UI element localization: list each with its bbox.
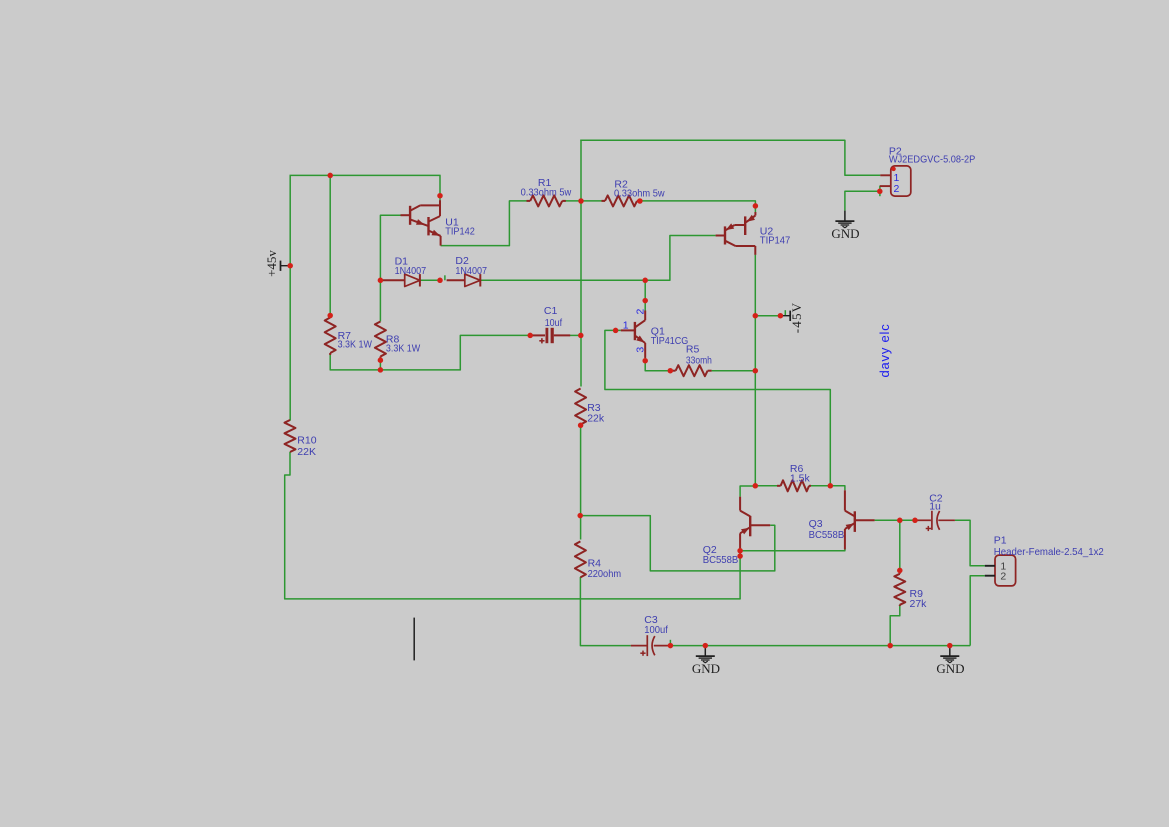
junction 18 <box>668 368 674 374</box>
darlington U1 <box>439 200 441 216</box>
svg-text:GND: GND <box>692 661 720 676</box>
junction 20 <box>578 423 584 429</box>
svg-text:R10: R10 <box>297 434 316 446</box>
resistor R1 <box>527 200 531 202</box>
svg-text:27k: 27k <box>910 598 928 610</box>
resistor R8 <box>375 322 386 357</box>
svg-text:10uf: 10uf <box>545 317 562 329</box>
diode D1 <box>381 279 405 281</box>
wire R5 right <box>712 370 756 372</box>
junction 2 <box>437 193 443 199</box>
wire Q2 emitter to Q3 emitter <box>740 549 845 551</box>
wire C1 left <box>530 334 531 336</box>
junction 3 <box>327 313 333 319</box>
capacitor C2 <box>915 519 931 521</box>
wire R6 left lead <box>755 485 777 487</box>
junction -45V tap <box>753 313 759 319</box>
resistor R3 <box>575 389 586 425</box>
junction 14 <box>642 278 648 284</box>
svg-text:C1: C1 <box>544 305 558 317</box>
junction 12 <box>753 203 759 209</box>
junction 10 <box>578 198 584 204</box>
wire R6 left to Q2 collector <box>740 486 755 497</box>
ground GND2 <box>949 646 951 656</box>
svg-text:-45V: -45V <box>789 302 804 334</box>
junction 27 <box>912 518 918 524</box>
svg-text:3.3K 1W: 3.3K 1W <box>338 338 372 350</box>
svg-text:+45v: +45v <box>264 250 279 277</box>
wire Q3 base row <box>875 519 915 521</box>
svg-text:33omh: 33omh <box>686 355 712 367</box>
ground GND1 <box>704 646 706 656</box>
power -45V symbol <box>780 315 790 317</box>
wire central vertical top <box>580 140 582 387</box>
capacitor C1 <box>531 334 545 336</box>
wire U1 base <box>380 215 400 280</box>
junction 22 <box>753 483 759 489</box>
wire +45v rail down to R10 <box>289 266 291 421</box>
resistor R4 <box>575 541 586 577</box>
svg-text:1N4007: 1N4007 <box>395 265 427 277</box>
junction 30 <box>703 643 709 649</box>
wire D2 to node <box>480 279 645 281</box>
svg-text:2: 2 <box>893 183 899 195</box>
junction 19 <box>753 368 759 374</box>
svg-text:WJ2EDGVC-5.08-2P: WJ2EDGVC-5.08-2P <box>889 154 975 166</box>
junction 26 <box>897 518 903 524</box>
stub P2 pin2 <box>879 186 881 197</box>
transistor Q2 <box>739 497 741 511</box>
wire D1-D2 mid <box>420 279 440 281</box>
stub C3 right <box>669 640 671 646</box>
wire R4 bottom to C3 rail <box>580 577 630 646</box>
wire C1 right to central <box>570 334 582 336</box>
wire -45V tap <box>755 315 780 317</box>
wire Q1 collector <box>644 280 646 310</box>
svg-text:22k: 22k <box>587 413 605 425</box>
resistor R2 <box>602 200 606 202</box>
connector P1 <box>995 555 1016 586</box>
capacitor C3 <box>631 645 648 647</box>
wire U1 emitter to R1 <box>441 201 527 246</box>
svg-text:BC558B: BC558B <box>809 529 845 541</box>
wire +45v rail up <box>289 175 291 266</box>
transistor Q1 <box>644 311 646 321</box>
wire R1 right to node <box>563 200 582 202</box>
svg-text:0.33ohm 5w: 0.33ohm 5w <box>614 188 665 200</box>
junction 13 <box>877 189 883 195</box>
junction 8 <box>527 333 533 339</box>
stub D1-D2 <box>444 275 446 280</box>
svg-text:0.33ohm 5w: 0.33ohm 5w <box>521 186 572 198</box>
wire Q1 base route <box>605 330 830 486</box>
stub -45V <box>784 310 786 316</box>
stray black mark <box>413 618 415 661</box>
junction 11 <box>637 198 643 204</box>
svg-text:GND: GND <box>831 226 859 241</box>
svg-text:Header-Female-2.54_1x2: Header-Female-2.54_1x2 <box>994 546 1104 558</box>
ground GND at P2 <box>844 211 846 221</box>
wire R8 bottom <box>379 357 381 371</box>
junction 7 <box>437 278 443 284</box>
svg-text:P1: P1 <box>994 534 1007 546</box>
svg-text:GND: GND <box>936 661 964 676</box>
junction 24 <box>737 548 743 554</box>
junction 16 <box>613 328 619 334</box>
junction 21 <box>577 513 583 519</box>
wire U1 collector drop <box>439 175 441 200</box>
wire below R10 to bottom-left rail <box>285 452 741 599</box>
svg-text:2: 2 <box>1000 571 1006 583</box>
wire R3 bottom to R4 <box>580 425 582 540</box>
wire R4 node to Q2 base <box>580 516 775 571</box>
wire node to U2 base <box>645 236 715 281</box>
junction 15 <box>642 298 648 304</box>
junction 4 <box>378 278 384 284</box>
darlington U2 <box>754 212 756 216</box>
wire P2 pin2 to GND <box>845 191 880 210</box>
junction 32 <box>947 643 953 649</box>
svg-text:3.3K 1W: 3.3K 1W <box>386 343 420 355</box>
wire node to R2 left <box>581 200 605 202</box>
wire R8 drop <box>379 280 381 321</box>
svg-text:1: 1 <box>623 320 629 332</box>
wire Q2 emitter down <box>739 549 741 599</box>
wire R7 bottom tie to C1 <box>330 335 530 370</box>
svg-text:3: 3 <box>634 347 646 353</box>
svg-text:2: 2 <box>634 309 646 315</box>
wire top feed to P2 <box>580 140 880 175</box>
svg-text:100uf: 100uf <box>644 624 668 636</box>
resistor R9 <box>899 570 901 573</box>
power +45v symbol <box>281 265 291 267</box>
resistor R10 <box>285 420 296 452</box>
resistor R6 <box>777 485 781 487</box>
transistor Q3 <box>844 490 846 510</box>
wire R7 branch vertical <box>329 175 331 316</box>
wire R6 right to Q3 collector <box>830 486 845 491</box>
svg-text:davy elc: davy elc <box>877 323 892 377</box>
wire Q1 emitter to R5 <box>645 358 670 371</box>
wire bottom rail <box>671 645 971 647</box>
junction 17 <box>642 358 648 364</box>
junction 23 <box>828 483 834 489</box>
svg-text:TIP147: TIP147 <box>760 235 791 247</box>
junction 1 <box>327 173 333 179</box>
svg-text:1N4007: 1N4007 <box>455 265 487 277</box>
resistor R7 <box>329 316 331 318</box>
wire R9 bottom jog <box>890 605 900 646</box>
junction 25 <box>737 553 743 559</box>
junction 9 <box>578 333 584 339</box>
svg-text:1.5k: 1.5k <box>790 472 811 484</box>
junction 31 <box>887 643 893 649</box>
junction 6 <box>378 367 384 373</box>
wire P1 pin2 riser <box>970 576 985 646</box>
resistor R5 <box>670 370 675 372</box>
junction +45v <box>287 263 293 269</box>
wire R2 right to U2 <box>640 201 756 212</box>
svg-text:BC558B: BC558B <box>703 554 739 566</box>
junction -45V pin <box>778 313 784 319</box>
wire R6 right lead <box>809 485 830 487</box>
wire U2 emitter long vertical <box>754 255 756 486</box>
diode D2 <box>447 279 465 281</box>
junction 28 <box>897 568 903 574</box>
svg-text:1u: 1u <box>929 500 941 512</box>
wire top-left horizontal <box>290 174 441 176</box>
wire C2 right to P1 pin1 <box>955 520 985 566</box>
wire R9 top <box>899 520 901 570</box>
svg-text:TIP142: TIP142 <box>445 225 475 237</box>
junction 5 <box>378 357 384 363</box>
svg-text:22K: 22K <box>297 446 316 458</box>
junction 29 <box>668 643 674 649</box>
svg-text:TIP41CG: TIP41CG <box>651 335 689 347</box>
svg-text:220ohm: 220ohm <box>588 568 622 580</box>
connector P2 <box>891 166 911 196</box>
